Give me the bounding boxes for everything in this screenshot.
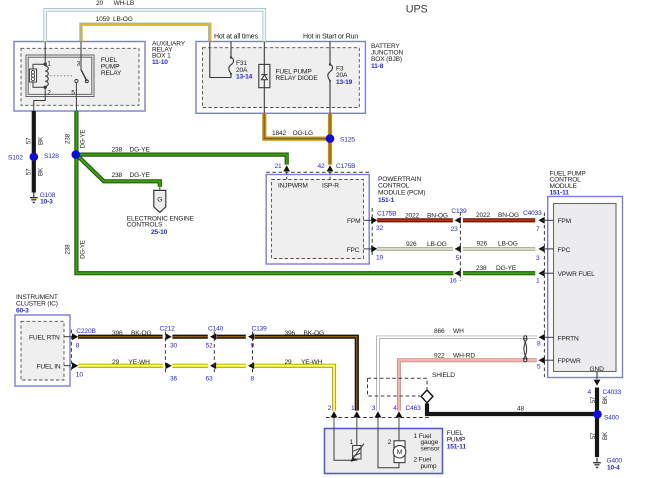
svg-text:30: 30	[170, 342, 178, 349]
svg-text:ISP-R: ISP-R	[322, 182, 339, 189]
svg-text:13-19: 13-19	[336, 79, 353, 86]
svg-text:UPS: UPS	[406, 3, 428, 15]
svg-text:10-3: 10-3	[40, 199, 53, 206]
svg-text:S128: S128	[44, 153, 59, 160]
svg-text:396: 396	[285, 330, 296, 337]
svg-text:BK-OG: BK-OG	[131, 330, 152, 337]
svg-text:238: 238	[65, 244, 72, 255]
svg-text:sensor: sensor	[421, 445, 441, 452]
svg-text:OG-LG: OG-LG	[293, 130, 314, 137]
svg-text:25-10: 25-10	[151, 229, 168, 236]
svg-text:FPPWR: FPPWR	[558, 358, 581, 365]
svg-text:238: 238	[112, 146, 123, 153]
svg-text:11-8: 11-8	[371, 63, 384, 70]
svg-text:2: 2	[328, 405, 332, 412]
svg-text:FPM: FPM	[558, 218, 571, 225]
svg-text:BN-OG: BN-OG	[498, 212, 519, 219]
svg-text:2: 2	[388, 439, 392, 446]
svg-text:63: 63	[206, 375, 214, 382]
svg-text:FPRTN: FPRTN	[558, 335, 579, 342]
svg-text:VPWR FUEL: VPWR FUEL	[558, 271, 596, 278]
svg-text:5: 5	[71, 90, 75, 97]
svg-text:57: 57	[25, 168, 32, 175]
svg-text:3: 3	[77, 60, 81, 67]
svg-text:2: 2	[47, 90, 51, 97]
svg-text:C140: C140	[208, 325, 224, 332]
svg-text:DG-YE: DG-YE	[496, 265, 517, 272]
svg-text:FPM: FPM	[347, 218, 360, 225]
svg-text:21: 21	[275, 163, 283, 170]
svg-text:WH-RD: WH-RD	[453, 352, 475, 359]
svg-text:FPC: FPC	[558, 247, 571, 254]
svg-text:YE-WH: YE-WH	[301, 359, 323, 366]
svg-text:1059: 1059	[96, 16, 111, 23]
svg-text:1842: 1842	[272, 130, 287, 137]
svg-text:29: 29	[285, 359, 293, 366]
svg-text:BK-OG: BK-OG	[304, 330, 325, 337]
svg-text:9: 9	[251, 342, 255, 349]
svg-text:151-1: 151-1	[378, 197, 395, 204]
svg-text:1: 1	[47, 60, 51, 67]
svg-text:MODULE (PCM): MODULE (PCM)	[378, 189, 425, 196]
svg-text:57: 57	[25, 137, 32, 144]
svg-text:8: 8	[537, 340, 541, 347]
svg-text:3: 3	[372, 405, 376, 412]
svg-text:151-11: 151-11	[550, 189, 570, 196]
svg-text:DG-YE: DG-YE	[80, 240, 87, 259]
svg-text:16: 16	[450, 278, 458, 285]
svg-text:S102: S102	[8, 155, 23, 162]
svg-text:Hot at all times: Hot at all times	[214, 34, 259, 41]
svg-text:238: 238	[476, 265, 487, 272]
svg-text:S125: S125	[340, 137, 355, 144]
svg-text:2022: 2022	[405, 212, 420, 219]
svg-text:LB-OG: LB-OG	[498, 241, 518, 248]
svg-text:8: 8	[251, 375, 255, 382]
svg-text:C212: C212	[160, 325, 176, 332]
svg-text:19: 19	[376, 254, 384, 261]
svg-text:YE-WH: YE-WH	[129, 359, 151, 366]
svg-text:32: 32	[376, 225, 384, 232]
svg-text:20: 20	[96, 0, 104, 7]
svg-text:13-14: 13-14	[236, 74, 253, 81]
svg-text:BK: BK	[37, 136, 44, 145]
svg-text:RELAY DIODE: RELAY DIODE	[276, 75, 319, 82]
svg-text:36: 36	[170, 375, 178, 382]
svg-text:G400: G400	[607, 457, 623, 464]
svg-text:INJPWRM: INJPWRM	[278, 182, 308, 189]
svg-text:FPC: FPC	[347, 247, 360, 254]
svg-text:57: 57	[590, 396, 597, 403]
svg-text:DG-YE: DG-YE	[80, 130, 87, 149]
svg-text:52: 52	[206, 342, 214, 349]
svg-text:Hot in Start or Run: Hot in Start or Run	[303, 34, 358, 41]
svg-text:pump: pump	[421, 463, 437, 470]
svg-text:1: 1	[350, 439, 354, 446]
svg-text:238: 238	[65, 133, 72, 144]
svg-text:DG-YE: DG-YE	[130, 172, 151, 179]
svg-text:CLUSTER (IC): CLUSTER (IC)	[16, 301, 58, 308]
svg-text:7: 7	[536, 226, 540, 233]
svg-text:FUEL RTN: FUEL RTN	[29, 335, 60, 342]
svg-text:C220B: C220B	[76, 328, 96, 335]
svg-text:BOX (BJB): BOX (BJB)	[371, 56, 402, 63]
svg-text:10-4: 10-4	[607, 464, 620, 471]
svg-text:C175B: C175B	[336, 163, 356, 170]
svg-text:WH: WH	[453, 328, 464, 335]
svg-text:4: 4	[393, 405, 397, 412]
svg-text:238: 238	[112, 172, 123, 179]
svg-text:C463: C463	[406, 405, 422, 412]
svg-text:FUEL IN: FUEL IN	[37, 364, 61, 371]
svg-text:CONTROLS: CONTROLS	[127, 221, 163, 228]
svg-text:M: M	[397, 449, 403, 456]
svg-text:PUMP: PUMP	[447, 436, 466, 443]
svg-text:1: 1	[536, 278, 540, 285]
svg-text:922: 922	[434, 352, 445, 359]
svg-text:57: 57	[590, 432, 597, 439]
svg-text:60-3: 60-3	[16, 308, 29, 315]
svg-text:C4033: C4033	[603, 389, 622, 396]
svg-text:C4033: C4033	[523, 210, 542, 217]
svg-text:4: 4	[588, 389, 592, 396]
svg-text:3: 3	[536, 255, 540, 262]
svg-text:SHIELD: SHIELD	[432, 372, 455, 379]
svg-text:8: 8	[76, 343, 80, 350]
svg-text:10: 10	[76, 372, 84, 379]
svg-text:23: 23	[451, 226, 459, 233]
svg-text:RELAY: RELAY	[101, 70, 122, 77]
svg-text:S400: S400	[604, 414, 619, 421]
svg-text:LB-OG: LB-OG	[427, 241, 447, 248]
svg-text:BK: BK	[37, 167, 44, 176]
svg-text:926: 926	[406, 241, 417, 248]
svg-text:LB-OG: LB-OG	[113, 16, 133, 23]
svg-text:BN-OG: BN-OG	[427, 212, 448, 219]
svg-text:396: 396	[112, 330, 123, 337]
svg-text:2022: 2022	[476, 212, 491, 219]
svg-text:866: 866	[434, 328, 445, 335]
svg-text:5: 5	[456, 255, 460, 262]
svg-text:WH-LB: WH-LB	[114, 0, 135, 7]
svg-text:C139: C139	[252, 325, 268, 332]
svg-text:BK: BK	[602, 395, 609, 404]
svg-text:151-11: 151-11	[447, 444, 467, 451]
svg-text:G: G	[157, 197, 162, 204]
svg-text:DG-YE: DG-YE	[130, 146, 151, 153]
svg-text:11-10: 11-10	[152, 59, 168, 66]
svg-text:5: 5	[537, 363, 541, 370]
svg-text:C139: C139	[451, 208, 467, 215]
svg-text:42: 42	[318, 163, 326, 170]
svg-text:48: 48	[517, 406, 525, 413]
svg-text:GND: GND	[590, 366, 605, 373]
svg-text:BK: BK	[602, 431, 609, 440]
svg-text:29: 29	[112, 359, 120, 366]
svg-text:1: 1	[351, 405, 355, 412]
svg-text:926: 926	[477, 241, 488, 248]
svg-text:C175B: C175B	[377, 211, 397, 218]
